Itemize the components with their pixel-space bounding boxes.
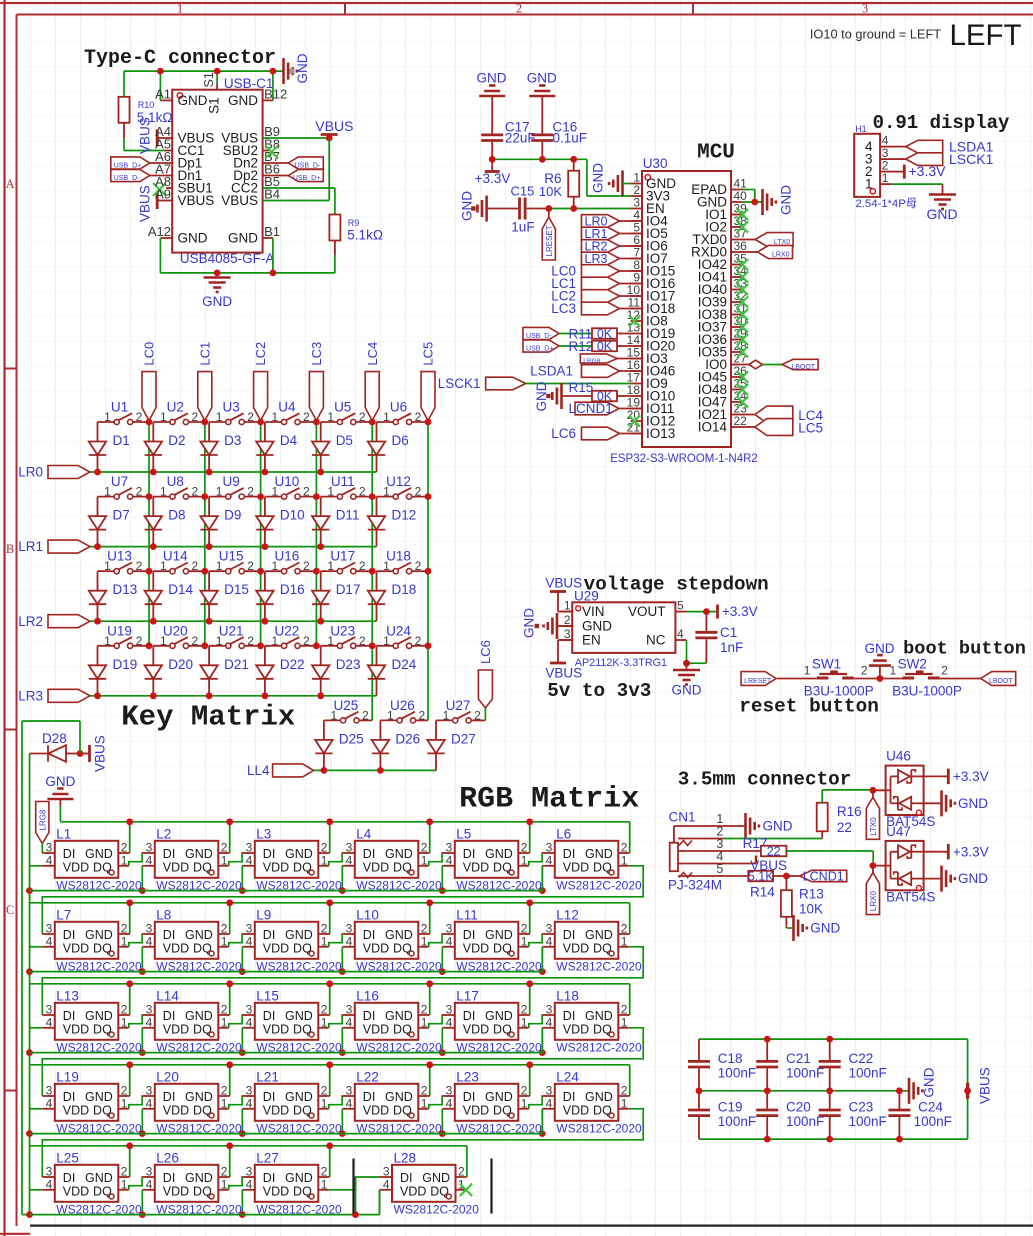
- svg-text:DI: DI: [63, 1171, 76, 1185]
- power flag +3.3V below C17: [475, 159, 511, 186]
- wire VDD drop L4: [341, 866, 343, 891]
- svg-text:EPAD: EPAD: [691, 182, 727, 197]
- wire GND drop L17: [529, 984, 531, 1015]
- wire GND drop L12: [629, 903, 631, 934]
- net flag LR2 row flag: [18, 614, 90, 629]
- diode D21: [200, 646, 248, 696]
- junction GND bus L7: [126, 899, 133, 906]
- ground GND above RGB matrix: [45, 774, 75, 822]
- junction GND bus L10: [426, 899, 433, 906]
- svg-text:C18: C18: [718, 1051, 743, 1066]
- switch U21: [209, 623, 261, 648]
- ground GND between SW1 SW2: [865, 641, 895, 679]
- junctions column LC5: [425, 419, 432, 650]
- svg-text:DI: DI: [263, 928, 276, 942]
- junction VDD bus L18: [539, 1049, 546, 1056]
- wire CN1 pin 1 to GND: [674, 825, 746, 827]
- diode U47 bottom: [891, 872, 924, 885]
- no-connect X at pin IO8: [629, 315, 640, 326]
- svg-text:DI: DI: [163, 1090, 176, 1104]
- junction VDD bus L20: [139, 1130, 146, 1137]
- svg-text:R9: R9: [348, 218, 360, 228]
- svg-text:U2: U2: [167, 400, 184, 415]
- wire data return row 4 to row 5: [42, 1109, 643, 1177]
- svg-text:GND: GND: [228, 93, 258, 108]
- svg-text:D12: D12: [392, 508, 417, 523]
- mcu left pins 1-21: [627, 170, 677, 441]
- svg-text:B3U-1000P: B3U-1000P: [804, 684, 874, 699]
- svg-text:5.1kΩ: 5.1kΩ: [347, 228, 383, 243]
- switch U25: [324, 698, 372, 723]
- svg-text:DI: DI: [163, 928, 176, 942]
- connector USB-C1 body: [172, 72, 274, 266]
- svg-text:D24: D24: [392, 657, 417, 672]
- wire GND drop L18: [629, 984, 631, 1015]
- wire data return row 3 to row 4: [42, 1028, 643, 1096]
- capacitor C16: [531, 120, 587, 160]
- no-connect X marks right side: [737, 209, 748, 408]
- svg-text:VDD: VDD: [263, 1022, 289, 1036]
- junction VDD bus L3: [239, 887, 246, 894]
- wire data L21 to L22: [329, 1096, 343, 1109]
- svg-text:+3.3V: +3.3V: [909, 163, 947, 179]
- USB-C1 left pin names: [160, 93, 214, 246]
- net flag LC4 at MCU pin 23: [743, 406, 824, 423]
- junction VDD bus L21: [239, 1130, 246, 1137]
- ground GND at CN1 pin 1: [746, 813, 793, 839]
- svg-text:2: 2: [303, 559, 310, 573]
- wire GND drop L10: [429, 903, 431, 934]
- connector CN1 pin numbers: [716, 812, 723, 876]
- svg-text:DI: DI: [263, 1009, 276, 1023]
- net flag LCND1 at R14: [786, 869, 846, 883]
- junctions capacitor bank mid rail: [696, 1087, 903, 1094]
- wire VDD drop L15: [241, 1028, 243, 1053]
- net flag LC2 at MCU pin 10: [551, 289, 642, 304]
- switch U18: [377, 549, 429, 574]
- net flag LC6 at MCU pin 21: [551, 426, 642, 441]
- svg-text:GND: GND: [185, 1171, 213, 1185]
- svg-text:A: A: [5, 177, 14, 191]
- svg-text:U30: U30: [643, 156, 668, 171]
- bar left of L28: [352, 1159, 354, 1214]
- junction VDD bus L26: [139, 1211, 146, 1218]
- wire VDD drop L27: [241, 1190, 243, 1215]
- svg-text:L3: L3: [256, 826, 271, 841]
- wire rail to 3V3 pin: [587, 159, 631, 196]
- diode D10: [256, 497, 304, 547]
- wire data L1 to L2: [129, 853, 143, 866]
- power flag VBUS at D28: [80, 735, 107, 772]
- svg-text:VBUS: VBUS: [221, 193, 258, 208]
- wire VDD bus row 3: [30, 1052, 543, 1054]
- junctions column LC2: [257, 419, 264, 650]
- switch U20: [153, 623, 205, 648]
- svg-text:GND: GND: [285, 928, 313, 942]
- svg-text:IO10 to ground = LEFT: IO10 to ground = LEFT: [810, 27, 941, 42]
- svg-text:DI: DI: [63, 928, 76, 942]
- wire GND drop L1: [129, 822, 131, 853]
- svg-text:100nF: 100nF: [718, 1114, 756, 1129]
- power flag VBUS at pin A4: [137, 117, 172, 154]
- diode U47 top: [891, 845, 924, 858]
- svg-text:GND: GND: [585, 928, 613, 942]
- led module L10 WS2812C-2020: [342, 907, 442, 973]
- svg-text:D18: D18: [392, 582, 417, 597]
- svg-text:L20: L20: [156, 1069, 179, 1084]
- junction VDD bus L17: [439, 1049, 446, 1056]
- svg-text:2: 2: [136, 410, 143, 424]
- svg-text:2: 2: [247, 485, 254, 499]
- junction VDD bus L11: [439, 968, 446, 975]
- wire VDD feed L13: [30, 1027, 43, 1029]
- switch U22: [265, 623, 317, 648]
- wire capacitor bank mid rail: [699, 1090, 909, 1092]
- junctions column LC3: [313, 419, 320, 650]
- svg-text:D17: D17: [336, 582, 361, 597]
- net flag LR1 at MCU pin 5: [582, 227, 643, 241]
- svg-text:D23: D23: [336, 657, 361, 672]
- svg-text:U11: U11: [331, 474, 355, 489]
- wire row LR3: [90, 695, 377, 697]
- net flag LC3 at MCU pin 11: [551, 301, 642, 316]
- ground GND below U29: [672, 663, 702, 697]
- diode D16: [256, 571, 304, 621]
- svg-text:D15: D15: [224, 582, 249, 597]
- diode D4: [256, 422, 297, 472]
- svg-text:C20: C20: [786, 1100, 811, 1115]
- svg-text:VDD: VDD: [463, 1022, 489, 1036]
- switch U9: [209, 474, 261, 499]
- svg-text:2: 2: [941, 663, 948, 677]
- led module L11 WS2812C-2020: [442, 907, 542, 973]
- svg-text:D4: D4: [280, 433, 298, 448]
- svg-text:1: 1: [177, 2, 183, 16]
- svg-text:2: 2: [191, 485, 198, 499]
- svg-text:GND: GND: [178, 231, 208, 246]
- svg-text:LC5: LC5: [798, 420, 823, 435]
- wire CC2 to R9: [263, 188, 335, 215]
- wire column LC3: [315, 421, 317, 646]
- USB-C1 left pin numbers: [148, 86, 171, 239]
- svg-text:GND: GND: [228, 231, 258, 246]
- svg-text:U24: U24: [386, 623, 411, 638]
- svg-text:U15: U15: [219, 549, 244, 564]
- wire GND drop L28: [466, 1146, 468, 1177]
- svg-text:VDD: VDD: [163, 860, 189, 874]
- svg-text:100nF: 100nF: [914, 1114, 952, 1129]
- svg-text:GND: GND: [422, 1171, 450, 1185]
- wire CN1 pin 2 to R16: [678, 831, 822, 838]
- svg-text:22: 22: [767, 844, 781, 858]
- svg-text:U13: U13: [107, 549, 132, 564]
- svg-text:LEFT: LEFT: [949, 19, 1021, 52]
- wire GND drop L9: [329, 903, 331, 934]
- led module L19 WS2812C-2020: [42, 1069, 142, 1135]
- switch U19: [98, 623, 150, 648]
- svg-text:R10: R10: [138, 100, 155, 110]
- svg-text:LR3: LR3: [585, 252, 608, 266]
- wire data L11 to L12: [529, 934, 543, 947]
- net flag LRG8 at MCU pin 15: [580, 354, 642, 365]
- junction GND bus L3: [326, 818, 333, 825]
- svg-text:L13: L13: [56, 988, 79, 1003]
- svg-text:DI: DI: [63, 1090, 76, 1104]
- svg-text:VDD: VDD: [263, 941, 289, 955]
- svg-text:DI: DI: [363, 928, 376, 942]
- net flag USB_D+ at pin A6: [111, 157, 172, 169]
- svg-text:L16: L16: [356, 988, 379, 1003]
- junction bottom rail B1: [270, 270, 277, 277]
- led module L15 WS2812C-2020: [242, 988, 342, 1054]
- svg-text:LC2: LC2: [253, 342, 268, 366]
- wire VDD drop L14: [141, 1028, 143, 1053]
- net flag LR2 at MCU pin 6: [582, 239, 643, 253]
- junctions capacitor bank bottom rail: [764, 1136, 903, 1143]
- svg-text:2: 2: [415, 410, 422, 424]
- switch U26: [380, 698, 428, 723]
- junction C16 rail: [539, 156, 546, 163]
- wire VDD drop L11: [441, 947, 443, 972]
- wire data L7 to L8: [129, 934, 143, 947]
- svg-text:U16: U16: [275, 549, 300, 564]
- wire row LL4: [314, 769, 436, 771]
- svg-text:100nF: 100nF: [849, 1114, 887, 1129]
- svg-text:LRESET: LRESET: [545, 225, 554, 256]
- svg-text:10K: 10K: [799, 902, 823, 917]
- led module L7 WS2812C-2020: [42, 907, 142, 973]
- led module L8 WS2812C-2020: [142, 907, 242, 973]
- svg-text:VBUS: VBUS: [545, 666, 582, 681]
- svg-text:GND: GND: [85, 928, 113, 942]
- net flag LSDA1 at H1 pin 4: [892, 139, 994, 155]
- svg-text:S1: S1: [202, 72, 216, 87]
- net flag LRX0 at MCU pin 36: [743, 245, 793, 258]
- svg-text:GND: GND: [385, 847, 413, 861]
- wire VDD drop L2: [141, 866, 143, 891]
- svg-text:DI: DI: [163, 847, 176, 861]
- svg-text:VBUS: VBUS: [137, 185, 152, 222]
- junctions row LR1: [94, 543, 324, 550]
- wire U46 common: [873, 776, 891, 803]
- svg-text:A9: A9: [155, 187, 171, 202]
- wire data L20 to L21: [229, 1096, 243, 1109]
- diode D25: [315, 720, 363, 770]
- junction GND bus L11: [526, 899, 533, 906]
- wire column LC4: [371, 421, 373, 721]
- svg-text:U5: U5: [334, 400, 351, 415]
- svg-text:C23: C23: [849, 1100, 874, 1115]
- svg-text:L24: L24: [556, 1069, 579, 1084]
- led module L9 WS2812C-2020: [242, 907, 342, 973]
- wire GND bus row 3: [30, 983, 630, 985]
- resistor R16: [817, 790, 873, 835]
- wire GND drop L8: [229, 903, 231, 934]
- junction MCU GND pins: [751, 199, 758, 206]
- svg-text:GND: GND: [585, 847, 613, 861]
- svg-text:GND: GND: [522, 608, 537, 638]
- svg-text:2: 2: [359, 559, 366, 573]
- svg-text:L27: L27: [256, 1150, 279, 1165]
- led module L3 WS2812C-2020: [242, 826, 342, 892]
- wire GND drop L14: [229, 984, 231, 1015]
- svg-text:L22: L22: [356, 1069, 379, 1084]
- diode D11: [312, 497, 359, 547]
- svg-text:GND: GND: [285, 847, 313, 861]
- svg-text:U46: U46: [886, 749, 911, 764]
- switch U1: [98, 400, 150, 425]
- svg-text:U4: U4: [278, 400, 296, 415]
- capacitor C18: [688, 1039, 756, 1091]
- junction buttons GND: [877, 675, 884, 682]
- svg-text:VDD: VDD: [263, 1184, 289, 1198]
- svg-text:1: 1: [889, 663, 896, 677]
- svg-text:GND: GND: [763, 819, 793, 834]
- svg-text:D14: D14: [168, 582, 193, 597]
- svg-text:U19: U19: [107, 623, 132, 638]
- led module L21 WS2812C-2020: [242, 1069, 342, 1135]
- svg-text:2: 2: [247, 634, 254, 648]
- svg-text:2: 2: [359, 634, 366, 648]
- svg-text:VDD: VDD: [63, 941, 89, 955]
- svg-text:U29: U29: [574, 588, 599, 603]
- svg-text:L12: L12: [556, 907, 579, 922]
- svg-text:22uF: 22uF: [505, 131, 536, 146]
- ground GND at MCU pin 1: [591, 163, 631, 197]
- wire row LR0: [90, 471, 377, 473]
- wire VDD drop L18: [541, 1028, 543, 1053]
- junction R6 EN: [570, 205, 577, 212]
- svg-text:D3: D3: [224, 433, 241, 448]
- svg-text:IO13: IO13: [646, 426, 675, 441]
- wire GND drop L23: [529, 1065, 531, 1096]
- svg-text:D7: D7: [113, 508, 130, 523]
- svg-text:LCND1: LCND1: [803, 869, 844, 883]
- svg-text:LC4: LC4: [365, 342, 380, 366]
- svg-text:LC3: LC3: [551, 301, 576, 316]
- wire VDD drop L12: [541, 947, 543, 972]
- no-connect X at pin IO12: [629, 415, 640, 426]
- wire VDD feed L19: [30, 1108, 43, 1110]
- junction LL4 D25: [321, 767, 328, 774]
- capacitor C24: [888, 1091, 951, 1139]
- svg-text:AP2112K-3.3TRG1: AP2112K-3.3TRG1: [575, 657, 667, 669]
- svg-text:DI: DI: [563, 928, 576, 942]
- svg-text:VIN: VIN: [582, 604, 605, 619]
- svg-text:U3: U3: [222, 400, 239, 415]
- wire data L14 to L15: [229, 1015, 243, 1028]
- wire data L19 to L20: [129, 1096, 143, 1109]
- svg-text:GND: GND: [295, 53, 310, 83]
- switch U15: [209, 549, 261, 574]
- junction GND bus L17: [526, 980, 533, 987]
- wire CN1 pin 5 to R14: [678, 875, 748, 877]
- svg-text:1uF: 1uF: [511, 220, 534, 235]
- svg-text:LSCK1: LSCK1: [949, 151, 994, 167]
- svg-text:U12: U12: [386, 474, 411, 489]
- wire VDD bus row 5: [30, 1214, 380, 1216]
- svg-text:LRX0: LRX0: [869, 891, 878, 912]
- svg-text:GND: GND: [45, 774, 75, 789]
- svg-text:LL4: LL4: [247, 763, 270, 778]
- svg-text:GND: GND: [385, 1090, 413, 1104]
- junction GND bus L23: [526, 1061, 533, 1068]
- svg-text:L7: L7: [56, 907, 71, 922]
- svg-text:VDD: VDD: [63, 860, 89, 874]
- svg-text:R16: R16: [837, 804, 862, 819]
- svg-text:L17: L17: [456, 988, 479, 1003]
- power flag +3.3V at U46: [924, 769, 989, 785]
- svg-text:D20: D20: [168, 657, 193, 672]
- svg-text:DI: DI: [463, 847, 476, 861]
- wire VDD drop L16: [341, 1028, 343, 1053]
- svg-text:CN1: CN1: [669, 810, 696, 825]
- junction VDD vertical row 4: [26, 1130, 33, 1137]
- svg-text:3.5mm connector: 3.5mm connector: [678, 769, 852, 791]
- svg-text:L25: L25: [56, 1150, 79, 1165]
- svg-text:+3.3V: +3.3V: [722, 604, 758, 619]
- svg-text:VBUS: VBUS: [137, 117, 152, 154]
- svg-text:VDD: VDD: [463, 941, 489, 955]
- svg-text:2: 2: [359, 410, 366, 424]
- wire GND drop L5: [529, 822, 531, 853]
- svg-text:2: 2: [303, 634, 310, 648]
- svg-text:D25: D25: [339, 731, 364, 746]
- svg-text:GND: GND: [485, 1009, 513, 1023]
- junction VDD bus L15: [239, 1049, 246, 1056]
- power flag VBUS at pin A9: [137, 185, 172, 222]
- svg-text:10K: 10K: [539, 184, 562, 199]
- power flag VBUS at U29 EN: [545, 640, 582, 681]
- junction VDD bus L27: [239, 1211, 246, 1218]
- wire H1 pin 1 to GND: [892, 184, 943, 193]
- wire column LC2: [260, 421, 262, 646]
- led module L17 WS2812C-2020: [442, 988, 542, 1054]
- led module L2 WS2812C-2020: [142, 826, 242, 892]
- wire VDD drop L8: [141, 947, 143, 972]
- wire GND bus row 2: [30, 902, 630, 904]
- svg-text:GND: GND: [285, 1171, 313, 1185]
- wire data L27 to L28: [329, 1177, 380, 1215]
- wire data L9 to L10: [329, 934, 343, 947]
- svg-text:USB_D-: USB_D-: [526, 333, 552, 340]
- mcu U30 ESP32 body: [610, 156, 758, 465]
- switch U24: [377, 623, 429, 648]
- wire GND drop L15: [329, 984, 331, 1015]
- diode D26: [372, 720, 420, 770]
- mcu right pins 22-41: [691, 176, 747, 434]
- junction LL4 D26: [377, 767, 384, 774]
- svg-text:GND: GND: [582, 619, 612, 634]
- svg-text:VDD: VDD: [163, 941, 189, 955]
- svg-text:DI: DI: [563, 1009, 576, 1023]
- diode D8: [145, 497, 186, 547]
- wire column LC5: [427, 421, 429, 721]
- svg-text:B3U-1000P: B3U-1000P: [892, 684, 962, 699]
- svg-text:reset button: reset button: [739, 696, 879, 718]
- svg-text:GND: GND: [178, 93, 208, 108]
- junction C17 rail: [489, 156, 496, 163]
- led module L12 WS2812C-2020: [542, 907, 642, 973]
- led module L24 WS2812C-2020: [542, 1069, 642, 1135]
- svg-text:1: 1: [564, 598, 571, 612]
- diode D23: [312, 646, 360, 696]
- svg-text:GND: GND: [285, 1009, 313, 1023]
- wire data L15 to L16: [329, 1015, 343, 1028]
- junction B12 riser on GND rail: [270, 68, 277, 75]
- svg-text:VDD: VDD: [63, 1022, 89, 1036]
- svg-text:S1: S1: [207, 97, 222, 114]
